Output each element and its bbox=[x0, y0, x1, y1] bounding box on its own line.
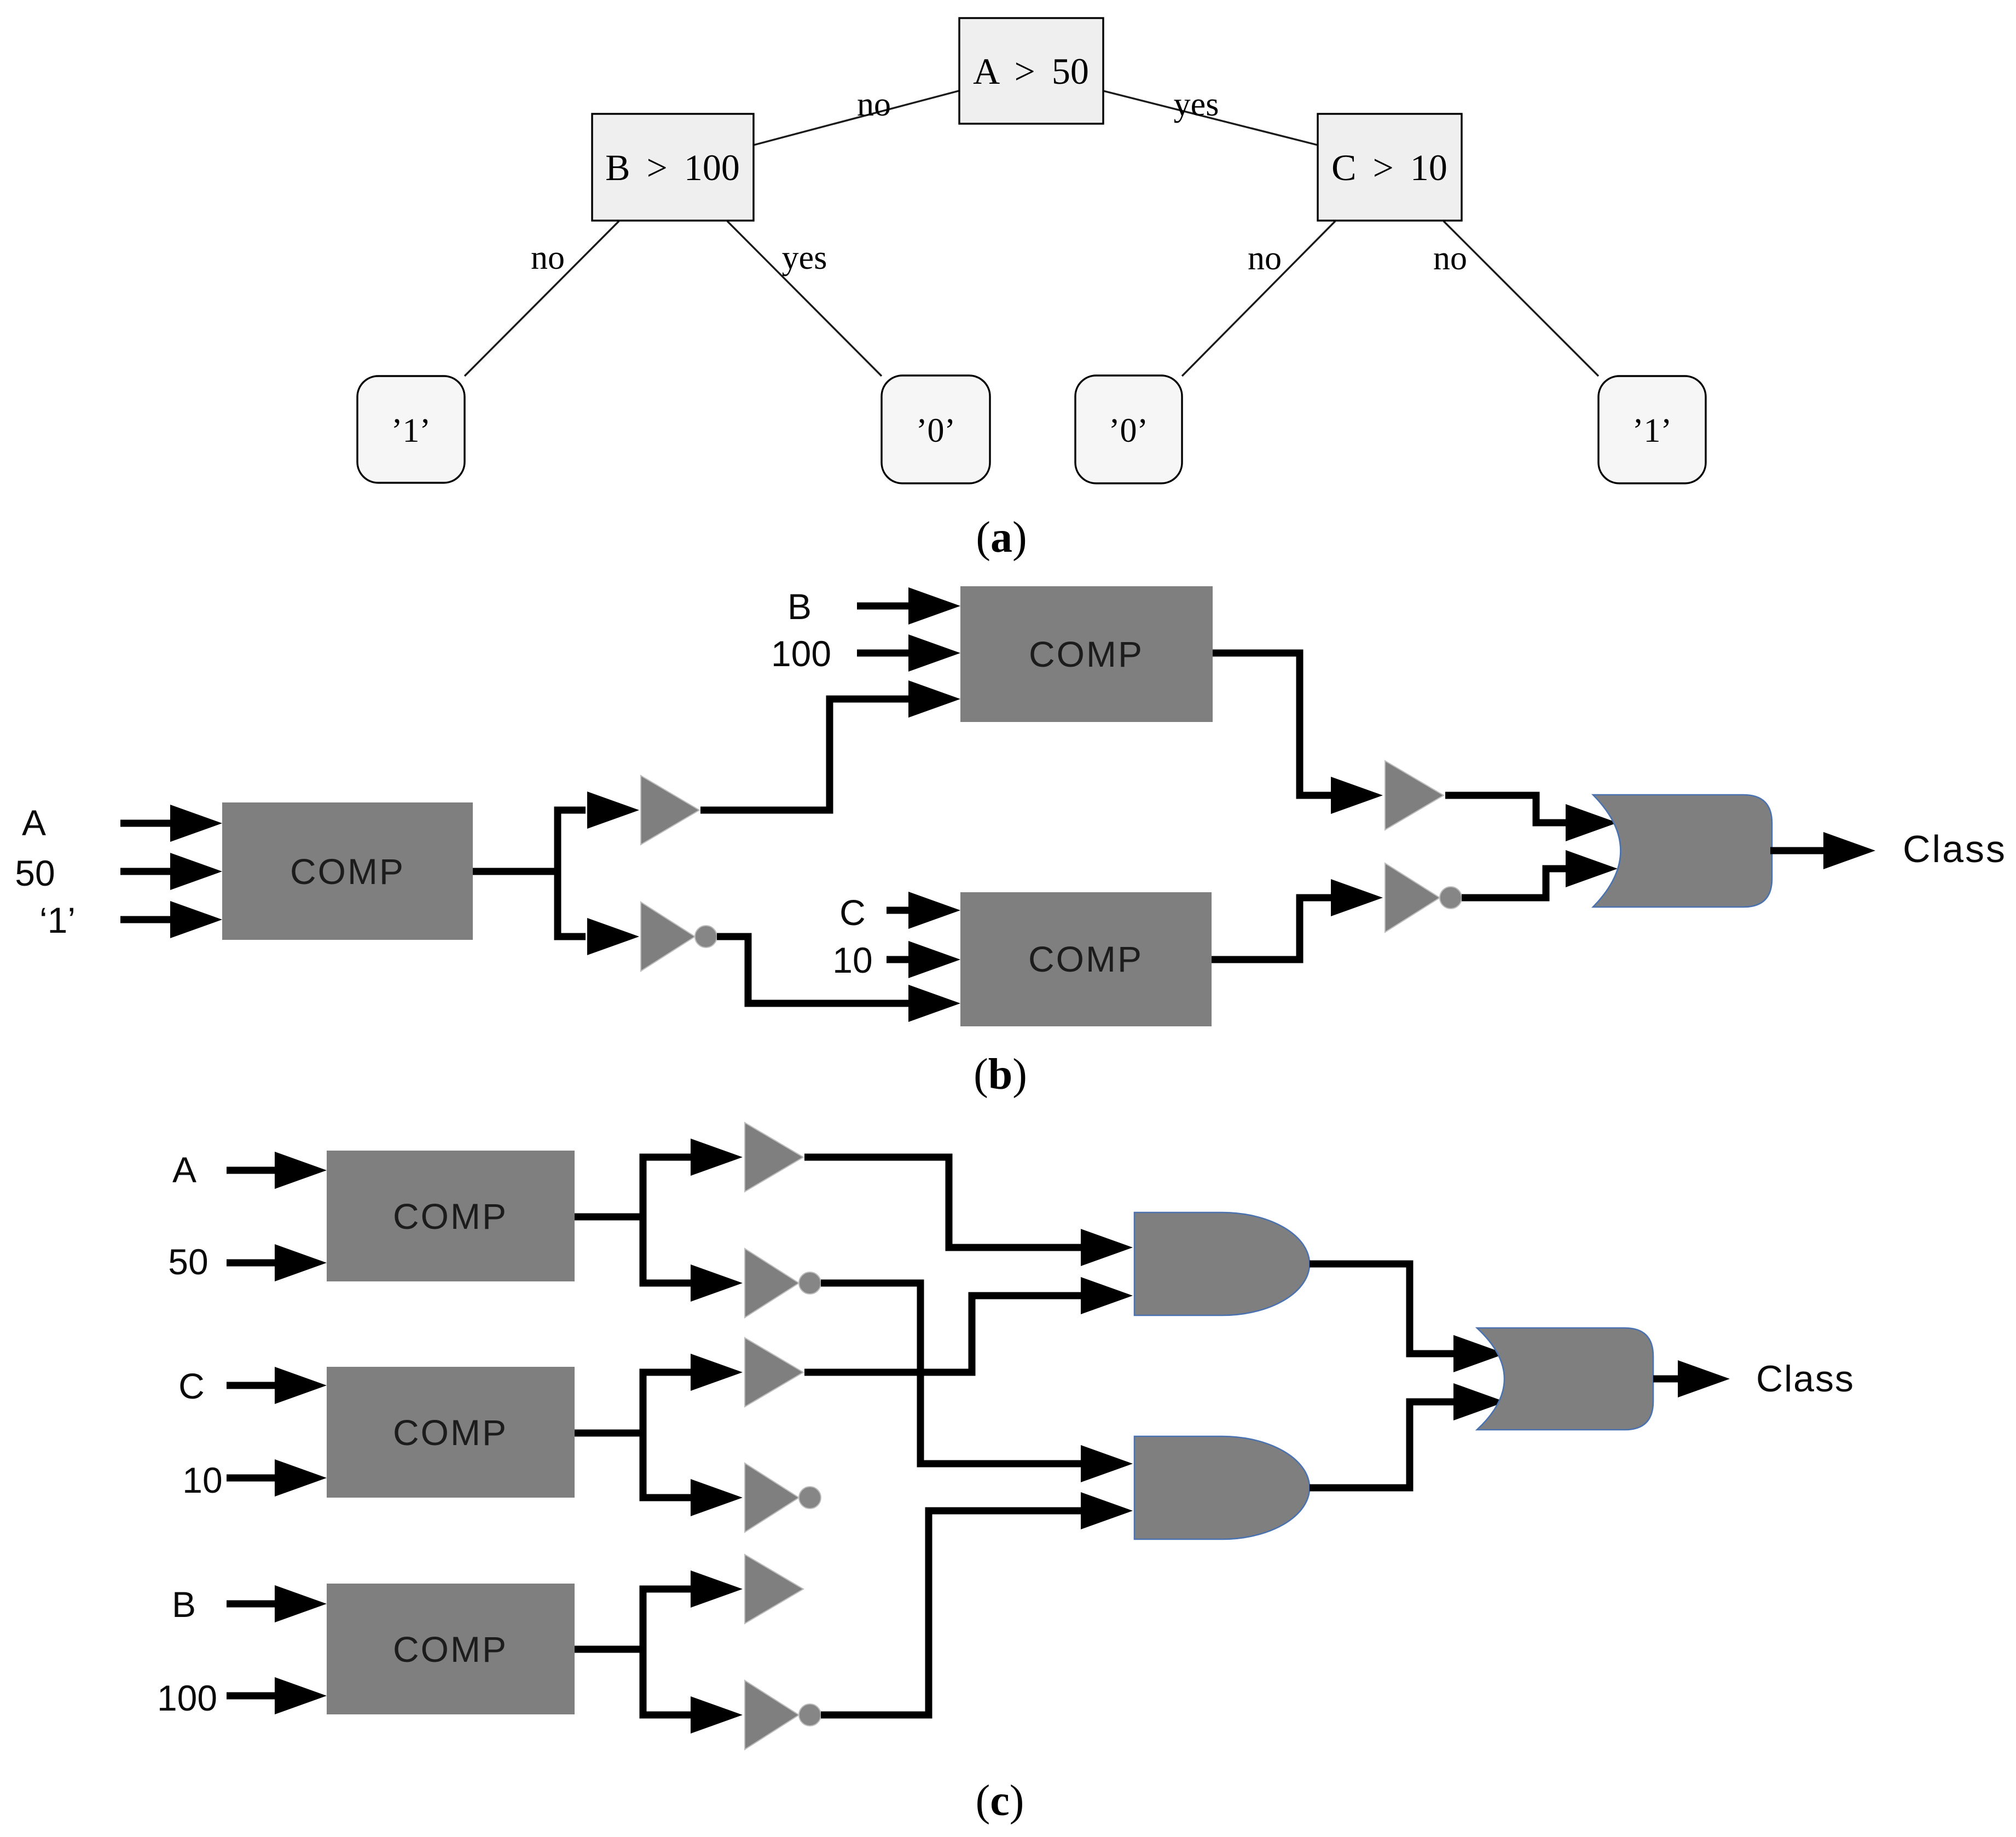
pin arrow Class output bbox=[1823, 832, 1875, 869]
wire U6 to AND1 input1 bbox=[804, 1157, 1081, 1247]
pin arrow into inverter U9 bbox=[691, 1479, 743, 1516]
pin arrow 50 into COMP1 bbox=[120, 853, 222, 890]
pin arrow A into COMP1 bbox=[120, 805, 222, 842]
svg-text:C: C bbox=[178, 1366, 205, 1406]
svg-text:50: 50 bbox=[168, 1241, 208, 1282]
leaf '0' right bbox=[1075, 376, 1182, 483]
wire U1 to COMP2 pin3 bbox=[700, 699, 909, 810]
pin arrow into OR input1 bbox=[1453, 1335, 1505, 1372]
and-gate AND1 bbox=[1134, 1212, 1310, 1315]
svg-text:COMP: COMP bbox=[393, 1196, 508, 1237]
wire U3 to OR gate input1 bbox=[1445, 795, 1568, 823]
comparator COMP5 (C>10) bbox=[327, 1367, 575, 1498]
wire COMP5 output split bbox=[575, 1372, 694, 1498]
svg-text:100: 100 bbox=[771, 633, 831, 674]
or-gate U5 bbox=[1593, 795, 1772, 907]
svg-text:C > 10: C > 10 bbox=[1331, 147, 1447, 188]
svg-text:no: no bbox=[1433, 240, 1467, 277]
wire OR output bbox=[1653, 1376, 1680, 1383]
wire COMP6 output split bbox=[575, 1589, 694, 1715]
svg-text:B: B bbox=[172, 1584, 196, 1625]
wire COMP3 to inverter U4 bbox=[1212, 898, 1332, 960]
pin arrow into AND2 input2 bbox=[1081, 1492, 1133, 1529]
inverter U11 bbox=[745, 1680, 821, 1749]
pin arrow Class output bbox=[1678, 1360, 1730, 1397]
svg-text:‘1’: ‘1’ bbox=[39, 900, 76, 940]
pin arrow A into COMP4 bbox=[227, 1152, 327, 1189]
inverter U2 bbox=[641, 902, 717, 971]
wire U2 to COMP3 pin3 bbox=[717, 937, 909, 1003]
or-gate U12 bbox=[1477, 1328, 1653, 1430]
svg-text:no: no bbox=[857, 86, 891, 123]
leaf '0' left bbox=[882, 376, 990, 483]
pin arrow into COMP2 pin3 bbox=[908, 680, 960, 718]
svg-text:yes: yes bbox=[1174, 86, 1219, 123]
wire AND2 to OR input2 bbox=[1310, 1402, 1456, 1488]
leaf '1' left bbox=[357, 376, 465, 483]
svg-text:COMP: COMP bbox=[393, 1629, 508, 1670]
comparator COMP2 (B>100) bbox=[960, 586, 1213, 722]
pin arrow into buffer U3 bbox=[1331, 777, 1383, 814]
wire OR output bbox=[1770, 847, 1826, 854]
wire U4 to OR gate input2 bbox=[1462, 869, 1568, 898]
svg-text:yes: yes bbox=[782, 239, 827, 276]
wire COMP4 output split bbox=[575, 1157, 694, 1283]
svg-text:100: 100 bbox=[157, 1678, 217, 1718]
buffer U3 bbox=[1385, 761, 1444, 830]
pin arrow B into COMP2 bbox=[857, 587, 960, 625]
pin arrow into AND1 input1 bbox=[1081, 1229, 1133, 1266]
inverter U4 bbox=[1385, 863, 1462, 932]
pin arrow into buffer U8 bbox=[691, 1354, 743, 1391]
comparator COMP4 (A>50) bbox=[327, 1151, 575, 1281]
svg-text:(a): (a) bbox=[976, 513, 1027, 562]
pin arrow into AND2 input1 bbox=[1081, 1445, 1133, 1482]
svg-text:no: no bbox=[531, 239, 565, 276]
pin arrow into OR input2 bbox=[1566, 850, 1618, 887]
inverter U7 bbox=[745, 1249, 821, 1318]
svg-text:(c): (c) bbox=[976, 1777, 1024, 1825]
svg-text:10: 10 bbox=[182, 1460, 222, 1500]
node C>10 bbox=[1318, 114, 1462, 221]
pin arrow into inverter U11 bbox=[691, 1696, 743, 1734]
svg-text:no: no bbox=[1248, 240, 1282, 277]
pin arrow into inverter U2 bbox=[587, 918, 639, 955]
svg-text:COMP: COMP bbox=[393, 1412, 508, 1453]
pin arrow B into COMP6 bbox=[227, 1585, 327, 1622]
svg-text:COMP: COMP bbox=[1028, 939, 1143, 979]
comparator COMP3 (C>10) bbox=[960, 892, 1212, 1026]
wire U8 to AND1 input2 bbox=[804, 1296, 1081, 1372]
buffer U1 bbox=[641, 776, 699, 845]
svg-text:A > 50: A > 50 bbox=[973, 50, 1089, 92]
wire edge B-leaf2 "yes" bbox=[727, 221, 882, 376]
svg-text:10: 10 bbox=[832, 940, 872, 980]
pin arrow 100 into COMP6 bbox=[227, 1677, 327, 1714]
pin arrow 50 into COMP4 bbox=[227, 1244, 327, 1281]
comparator COMP6 (B>100) bbox=[327, 1584, 575, 1714]
wire COMP1 output split bbox=[473, 810, 586, 937]
svg-text:(b): (b) bbox=[974, 1050, 1027, 1099]
node B>100 bbox=[592, 114, 754, 221]
svg-text:’0’: ’0’ bbox=[916, 412, 955, 449]
wire edge B-leaf1 "no" bbox=[465, 221, 619, 376]
wire edge A-B "no" bbox=[754, 91, 959, 145]
svg-text:’0’: ’0’ bbox=[1109, 412, 1148, 449]
svg-text:COMP: COMP bbox=[1029, 634, 1144, 674]
svg-text:B: B bbox=[787, 586, 812, 627]
inverter U9 (unconnected) bbox=[745, 1463, 821, 1532]
svg-text:C: C bbox=[839, 892, 866, 933]
svg-text:’1’: ’1’ bbox=[391, 412, 431, 449]
wire edge C-leaf4 "no" bbox=[1444, 221, 1598, 376]
buffer U10 (unconnected) bbox=[745, 1555, 803, 1624]
svg-text:’1’: ’1’ bbox=[1632, 412, 1672, 449]
svg-text:B > 100: B > 100 bbox=[605, 147, 740, 188]
svg-text:COMP: COMP bbox=[290, 851, 405, 892]
pin arrow 100 into COMP2 bbox=[857, 634, 960, 672]
pin arrow into inverter U4 bbox=[1331, 879, 1383, 916]
pin arrow into OR input1 bbox=[1566, 804, 1618, 841]
svg-text:A: A bbox=[22, 802, 46, 843]
pin arrow '1' into COMP1 bbox=[120, 901, 222, 938]
wire U11 to AND2 input2 bbox=[821, 1511, 1081, 1715]
svg-text:A: A bbox=[172, 1149, 196, 1190]
comparator COMP1 (A>50) bbox=[222, 802, 473, 940]
wire edge A-C "yes" bbox=[1103, 91, 1318, 145]
pin arrow 10 into COMP3 bbox=[887, 941, 960, 978]
leaf '1' right bbox=[1598, 376, 1706, 483]
wire edge C-leaf3 "no" bbox=[1182, 221, 1335, 376]
pin arrow into buffer U1 bbox=[587, 792, 639, 829]
svg-text:50: 50 bbox=[15, 853, 55, 893]
pin arrow into buffer U6 bbox=[691, 1139, 743, 1176]
svg-text:Class: Class bbox=[1756, 1358, 1855, 1400]
pin arrow into buffer U10 bbox=[691, 1570, 743, 1608]
wire AND1 to OR input1 bbox=[1310, 1264, 1456, 1354]
pin arrow into AND1 input2 bbox=[1081, 1277, 1133, 1314]
and-gate AND2 bbox=[1134, 1436, 1310, 1539]
buffer U6 bbox=[745, 1123, 803, 1192]
pin arrow C into COMP3 bbox=[887, 892, 960, 929]
pin arrow 10 into COMP5 bbox=[227, 1459, 327, 1497]
wire COMP2 to buffer U3 bbox=[1213, 653, 1332, 795]
wire U7 to AND2 input1 bbox=[821, 1283, 1081, 1464]
pin arrow into inverter U7 bbox=[691, 1264, 743, 1302]
node A>50 bbox=[959, 18, 1103, 124]
pin arrow into COMP3 pin3 bbox=[908, 985, 960, 1022]
svg-text:Class: Class bbox=[1903, 828, 2007, 870]
pin arrow into OR input2 bbox=[1453, 1383, 1505, 1420]
pin arrow C into COMP5 bbox=[227, 1367, 327, 1404]
buffer U8 bbox=[745, 1338, 803, 1407]
